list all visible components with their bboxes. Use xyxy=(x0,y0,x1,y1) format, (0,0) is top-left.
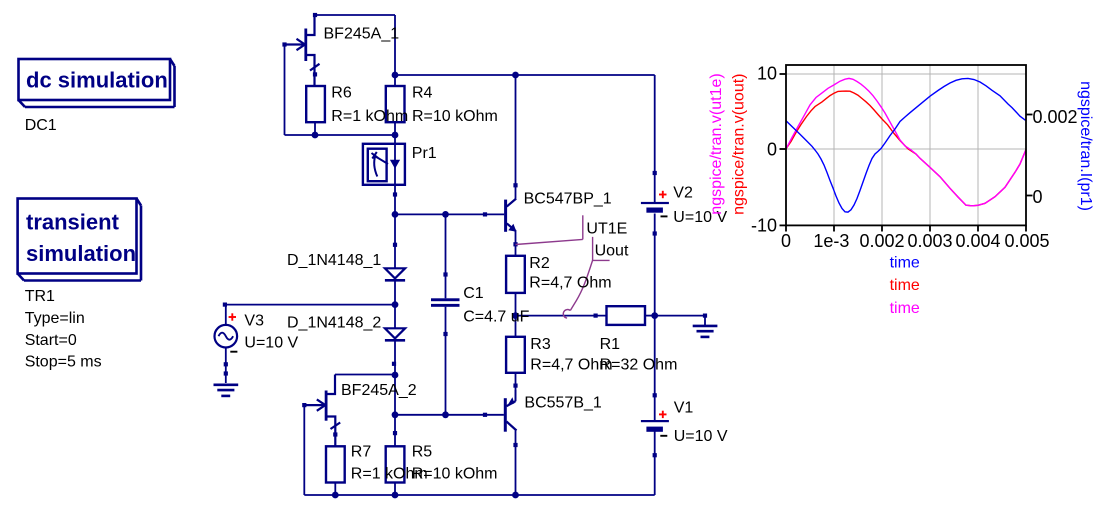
svg-text:ngspice/tran.v(uout): ngspice/tran.v(uout) xyxy=(731,73,748,214)
wire bus to C1 node row xyxy=(394,375,396,415)
wire JFET1 gate drop xyxy=(284,45,286,136)
wire left rail under R6 xyxy=(285,134,396,136)
pin Q1 source xyxy=(313,72,317,76)
pin V2 plus xyxy=(653,171,657,175)
wire D1 to V3 node xyxy=(394,282,396,305)
wire bus V3-node to diode D2 xyxy=(394,305,396,329)
wire bus to R5 xyxy=(394,415,396,447)
pin R1 left xyxy=(594,314,598,318)
source V3 (AC) xyxy=(215,325,238,348)
wire bus Pr1-node to diode D1 xyxy=(394,214,396,268)
wire node to V1 top xyxy=(654,316,656,420)
wire top rail to V2 xyxy=(395,74,655,76)
svg-text:0.002: 0.002 xyxy=(859,231,904,251)
curve magenta v(ut1e) xyxy=(786,78,1026,205)
wire BC557 collector to rail xyxy=(515,431,517,496)
source V1 (battery) xyxy=(641,420,669,432)
pin BC557 base xyxy=(483,413,487,417)
svg-text:Start=0: Start=0 xyxy=(25,332,77,349)
resistor R4 xyxy=(386,86,405,122)
pin D1 anode xyxy=(393,243,397,247)
wire D2 down to node xyxy=(394,342,396,376)
svg-text:0: 0 xyxy=(781,231,791,251)
svg-text:V3: V3 xyxy=(244,312,264,329)
plot axis numbers xyxy=(751,64,1078,252)
wire BC547 collector riser xyxy=(515,75,517,187)
transient simulation box TR1 xyxy=(18,199,141,281)
transistor Q1 BF245A_1 (JFET) xyxy=(285,15,320,86)
pin C1 top xyxy=(443,272,447,276)
wire V2 rail upper xyxy=(654,75,656,202)
pin V3 minus xyxy=(224,362,228,366)
pin BC547 collector xyxy=(513,183,517,187)
junction bus/top-rail xyxy=(392,72,399,79)
wire R1 to V-rail node xyxy=(645,315,655,317)
svg-text:0: 0 xyxy=(1033,187,1043,207)
junction bus/lower-rail xyxy=(392,132,399,139)
svg-text:ngspice/tran.v(ut1e): ngspice/tran.v(ut1e) xyxy=(708,73,725,214)
svg-text:UT1E: UT1E xyxy=(586,221,627,238)
junction collector/top-rail xyxy=(512,72,519,79)
wire V3 plus stub xyxy=(225,305,227,325)
wire R4 bottom to Pr1 xyxy=(394,122,396,144)
junction V-rail/output xyxy=(651,312,658,319)
svg-text:R=1 kOhm: R=1 kOhm xyxy=(331,108,408,125)
wire V3 minus to ground xyxy=(225,348,227,383)
probe Pr1 xyxy=(363,144,405,185)
junction C1-bottom xyxy=(442,411,449,418)
svg-text:R=10 kOhm: R=10 kOhm xyxy=(412,108,498,125)
svg-text:R=10 kOhm: R=10 kOhm xyxy=(412,466,498,483)
svg-text:U=10 V: U=10 V xyxy=(674,428,728,445)
diode D_1N4148_2 xyxy=(385,328,405,340)
pin Q2 gate xyxy=(302,403,306,407)
pin Q2 source xyxy=(333,432,337,436)
transistor BC557B_1 (PNP) xyxy=(485,390,517,432)
pin Pr1 bottom xyxy=(393,192,397,196)
svg-text:D_1N4148_1: D_1N4148_1 xyxy=(287,252,381,269)
pin R5 top xyxy=(393,431,397,435)
diagram: transient plot xyxy=(786,65,1026,225)
svg-text:transient: transient xyxy=(26,210,120,235)
wire bottom rail xyxy=(304,494,654,496)
resistor R2 xyxy=(506,256,525,293)
node label Uout marker xyxy=(563,237,609,318)
pin BC547 base xyxy=(483,212,487,216)
plot frame and ticks xyxy=(780,65,1033,232)
wire R2 to output node to R3 xyxy=(515,293,517,337)
wire Pr1 to node xyxy=(394,185,396,215)
svg-text:0.005: 0.005 xyxy=(1004,231,1049,251)
junction bus/V3-wire xyxy=(392,301,399,308)
source V2 (battery) xyxy=(641,202,669,213)
junction R7/bottom-rail xyxy=(332,492,339,499)
svg-text:Uout: Uout xyxy=(595,243,629,260)
pin D2 cathode xyxy=(392,362,396,366)
pin Q1 gate xyxy=(282,42,286,46)
svg-text:D_1N4148_2: D_1N4148_2 xyxy=(287,314,381,331)
junction R5/bottom-rail xyxy=(392,492,399,499)
capacitor C1 xyxy=(431,298,460,307)
curve blue I(pr1) xyxy=(786,78,1026,212)
curve red v(uout) xyxy=(786,91,1026,206)
resistor R6 xyxy=(306,86,325,122)
svg-text:R4: R4 xyxy=(412,85,433,102)
svg-text:U=10 V: U=10 V xyxy=(244,335,298,352)
transistor BC547BP_1 (NPN) xyxy=(485,187,517,232)
wire V-rail node to ground xyxy=(655,315,705,317)
junction bus/base-wire xyxy=(392,211,399,218)
svg-text:C1: C1 xyxy=(463,285,484,302)
svg-text:TR1: TR1 xyxy=(25,288,55,305)
svg-text:BF245A_1: BF245A_1 xyxy=(324,25,400,42)
svg-text:C=4.7 uF: C=4.7 uF xyxy=(463,309,529,326)
svg-text:0.003: 0.003 xyxy=(907,231,952,251)
pin C1 bottom xyxy=(443,332,447,336)
svg-text:time: time xyxy=(890,277,920,294)
svg-text:0.004: 0.004 xyxy=(955,231,1000,251)
pin ground output xyxy=(703,314,707,318)
svg-text:0: 0 xyxy=(767,140,777,160)
svg-text:10: 10 xyxy=(757,64,777,84)
svg-text:V2: V2 xyxy=(673,184,693,201)
wire output node to R1 xyxy=(516,315,607,317)
svg-text:R7: R7 xyxy=(351,444,372,461)
wire top rail JFET1 drain to bus xyxy=(315,14,395,16)
pin BC547 emitter xyxy=(513,242,517,246)
pin ground V3 xyxy=(224,371,228,375)
svg-text:simulation: simulation xyxy=(26,241,136,266)
resistor R1 (horizontal) xyxy=(607,306,646,325)
ground (output) xyxy=(693,326,718,337)
wire C1 bottom drop xyxy=(445,307,447,415)
wire C1 top drop xyxy=(445,214,447,298)
pin V1 plus xyxy=(653,393,657,397)
pin Q1 drain xyxy=(313,13,317,17)
dc simulation box DC1 xyxy=(19,59,175,107)
junction bus/BC557-base-wire xyxy=(392,411,399,418)
pin BC557 collector xyxy=(513,443,517,447)
svg-text:R6: R6 xyxy=(331,85,352,102)
transistor Q2 BF245A_2 (JFET) xyxy=(304,375,340,447)
wire BC547 emitter to R2 xyxy=(515,231,517,256)
svg-text:DC1: DC1 xyxy=(25,117,57,134)
wire R5 bottom stub xyxy=(394,483,396,496)
wire ground stub right xyxy=(704,316,706,325)
wire JFET2 drain to bus xyxy=(335,374,395,376)
junction R6/lower-rail xyxy=(312,132,319,139)
wire R7 bottom stub xyxy=(334,483,336,496)
svg-text:R5: R5 xyxy=(412,444,433,461)
node label UT1E marker xyxy=(516,215,583,244)
resistor R7 xyxy=(326,446,345,482)
svg-text:Type=lin: Type=lin xyxy=(25,310,85,327)
wire R6 bottom stub xyxy=(314,122,316,135)
pin BC557 emitter xyxy=(513,384,517,388)
wire node to BC547 base xyxy=(395,213,485,215)
ground (V3) xyxy=(214,385,239,396)
wire JFET2 gate drop xyxy=(303,405,305,495)
svg-text:BC557B_1: BC557B_1 xyxy=(524,395,601,412)
svg-text:BC547BP_1: BC547BP_1 xyxy=(524,191,612,208)
junction bus/JFET2-drain xyxy=(392,372,399,379)
wire node row to BC557 base xyxy=(395,414,485,416)
svg-text:time: time xyxy=(890,300,920,317)
wire bus top corner down to node xyxy=(394,15,396,87)
svg-text:-10: -10 xyxy=(751,216,777,236)
svg-text:Stop=5 ms: Stop=5 ms xyxy=(25,354,102,371)
wire R3 bottom to BC557 xyxy=(515,373,517,401)
svg-text:R=4,7 Ohm: R=4,7 Ohm xyxy=(529,275,611,292)
svg-text:Pr1: Pr1 xyxy=(412,145,437,162)
pin V2 minus xyxy=(653,231,657,235)
svg-text:V1: V1 xyxy=(674,400,694,417)
wire V2 bottom to node xyxy=(654,214,656,316)
junction C1-top xyxy=(442,211,449,218)
junction BC557/bottom-rail xyxy=(512,492,519,499)
V3 polarity marks xyxy=(229,313,236,320)
svg-text:1e-3: 1e-3 xyxy=(813,231,849,251)
svg-text:BF245A_2: BF245A_2 xyxy=(341,382,417,399)
svg-text:R=32 Ohm: R=32 Ohm xyxy=(600,357,678,374)
svg-text:R1: R1 xyxy=(600,336,621,353)
pin V3 plus xyxy=(223,303,227,307)
svg-text:ngspice/tran.I(pr1): ngspice/tran.I(pr1) xyxy=(1077,81,1094,211)
wire V1 bottom to rail xyxy=(654,431,656,495)
resistor R5 xyxy=(386,446,405,482)
svg-text:dc simulation: dc simulation xyxy=(26,68,168,93)
svg-text:R2: R2 xyxy=(529,255,550,272)
pin V1 minus xyxy=(653,453,657,457)
diode D_1N4148_1 xyxy=(385,268,405,280)
svg-text:time: time xyxy=(890,255,920,272)
node Uout junction R2/R3/R1 xyxy=(512,312,519,319)
svg-text:0.002: 0.002 xyxy=(1033,107,1078,127)
svg-text:R3: R3 xyxy=(530,336,551,353)
resistor R3 xyxy=(506,337,525,373)
wire V3 to bus xyxy=(226,304,395,306)
